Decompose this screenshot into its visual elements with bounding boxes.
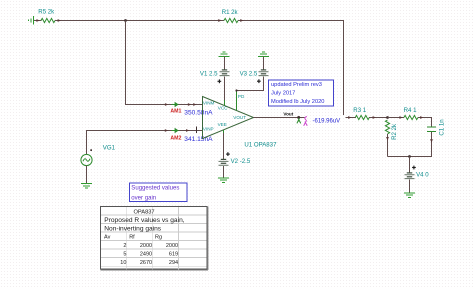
svg-text:619: 619 <box>169 252 178 258</box>
pin VEE stub <box>223 130 225 133</box>
svg-text:V3 2.5: V3 2.5 <box>240 71 258 78</box>
ground (below V2) <box>218 178 229 183</box>
ground (above V1) <box>219 52 230 57</box>
node A (feedback junction) <box>124 19 127 22</box>
resistor R2 (vertical) <box>385 120 397 140</box>
svg-text:Suggested values: Suggested values <box>131 186 179 192</box>
voltage generator VG1 <box>81 131 203 166</box>
wire (ground to R5) <box>34 20 42 22</box>
node Vout <box>297 116 300 119</box>
ground (VG1) <box>81 184 92 189</box>
ammeter AM2 (green arrow) <box>165 126 213 143</box>
voltage pin probe (green) <box>297 118 301 123</box>
svg-text:2670: 2670 <box>140 260 152 266</box>
svg-text:2000: 2000 <box>140 243 152 249</box>
wire (V4 to ground) <box>409 179 411 192</box>
resistor R5 <box>38 9 55 23</box>
ammeter AM1 (green arrow) <box>170 102 213 117</box>
pin VCC stub <box>224 100 226 106</box>
wire (node A down and right to VINM) <box>126 21 203 105</box>
svg-text:OPA837: OPA837 <box>134 210 155 216</box>
svg-text:V4 0: V4 0 <box>416 171 429 178</box>
ground (input, rotated sideways) <box>29 16 34 25</box>
svg-text:Rg: Rg <box>155 235 162 241</box>
wire (R3 left lead) <box>346 117 357 119</box>
svg-text:2000: 2000 <box>166 243 178 249</box>
svg-text:10: 10 <box>120 260 126 266</box>
svg-text:-619.96uV: -619.96uV <box>313 118 341 124</box>
capacitor C1 <box>427 119 445 135</box>
svg-text:VEE: VEE <box>218 122 227 127</box>
svg-text:VINM: VINM <box>203 101 215 106</box>
svg-text:over gain: over gain <box>131 195 156 201</box>
wire (R5 to node A to R1) <box>55 20 224 22</box>
svg-text:R3 1: R3 1 <box>353 107 366 114</box>
svg-text:5: 5 <box>123 252 126 258</box>
svg-text:Modified lb July 2020: Modified lb July 2020 <box>271 99 324 105</box>
svg-text:AM2: AM2 <box>170 136 181 142</box>
svg-text:Non-inverting gains: Non-inverting gains <box>104 226 162 233</box>
op-amp U1 OPA837 <box>203 94 278 149</box>
pin PD stub <box>236 91 238 111</box>
wire (R2 down to rail) <box>387 134 389 157</box>
svg-text:294: 294 <box>169 260 178 266</box>
battery V3 2.5 <box>240 69 269 83</box>
wire (node B to R4) <box>388 117 405 119</box>
svg-text:R2 2k: R2 2k <box>391 123 398 140</box>
svg-text:350.58nA: 350.58nA <box>184 110 213 117</box>
wire (V2 to ground) <box>223 166 225 178</box>
svg-text:VOUT: VOUT <box>233 115 246 120</box>
wire (gnd to V3) <box>263 57 265 70</box>
battery V2 -2.5 <box>219 152 251 165</box>
wire (V3 down, left to PD corner) <box>237 76 264 90</box>
svg-text:C1 1n: C1 1n <box>438 119 445 135</box>
svg-text:Proposed R values vs gain,: Proposed R values vs gain, <box>104 217 184 224</box>
node C (rail to V4) <box>408 155 411 158</box>
svg-text:R1 2k: R1 2k <box>222 9 239 16</box>
svg-text:U1 OPA837: U1 OPA837 <box>244 142 277 149</box>
svg-text:R4 1: R4 1 <box>404 107 417 114</box>
resistor R1 <box>222 9 239 23</box>
svg-text:Av: Av <box>104 235 111 241</box>
svg-text:Vout: Vout <box>283 112 293 117</box>
wire (C1 down, rail left to R2) <box>388 132 432 157</box>
svg-text:2: 2 <box>123 243 126 249</box>
svg-text:VINP: VINP <box>203 127 214 132</box>
wire (rail down to V4) <box>409 157 411 173</box>
svg-text:2490: 2490 <box>140 252 152 258</box>
svg-text:updated Prelim rev3: updated Prelim rev3 <box>271 82 322 88</box>
ground (below V4) <box>404 193 415 198</box>
node B <box>386 116 389 119</box>
resistor R4 <box>404 107 418 120</box>
wire (V1 to VCC pin) <box>224 76 226 100</box>
svg-text:Rf: Rf <box>129 235 135 241</box>
svg-text:VCC: VCC <box>218 105 228 110</box>
wire (op-amp output) <box>254 117 305 119</box>
svg-text:July 2017: July 2017 <box>271 91 295 97</box>
svg-text:PD: PD <box>238 94 245 99</box>
battery V4 0 <box>405 166 430 180</box>
wire (gnd to V1) <box>224 57 226 70</box>
wire (R3 to node B) <box>369 117 388 119</box>
resistor R3 <box>353 107 369 120</box>
wire (R1 right, corner, down toward R3) <box>238 21 344 116</box>
text box (updated Prelim rev3) <box>269 80 334 106</box>
svg-text:AM1: AM1 <box>170 109 181 115</box>
svg-text:V2 -2.5: V2 -2.5 <box>231 158 251 165</box>
wire (R4 to corner, down to C1) <box>418 118 432 127</box>
svg-text:341.15nA: 341.15nA <box>184 136 213 143</box>
battery V1 2.5 <box>200 69 230 83</box>
svg-text:V1 2.5: V1 2.5 <box>200 71 218 78</box>
text box (Suggested values over gain) <box>130 183 188 202</box>
table (OPA837 R values) <box>101 207 208 270</box>
wire (VEE to V2) <box>223 133 225 159</box>
voltage probe (magenta) <box>304 117 308 126</box>
wire (VG1 to ground) <box>86 166 88 183</box>
svg-text:VG1: VG1 <box>103 144 116 151</box>
ground (above V3) <box>258 52 269 57</box>
svg-text:R5 2k: R5 2k <box>38 9 55 16</box>
